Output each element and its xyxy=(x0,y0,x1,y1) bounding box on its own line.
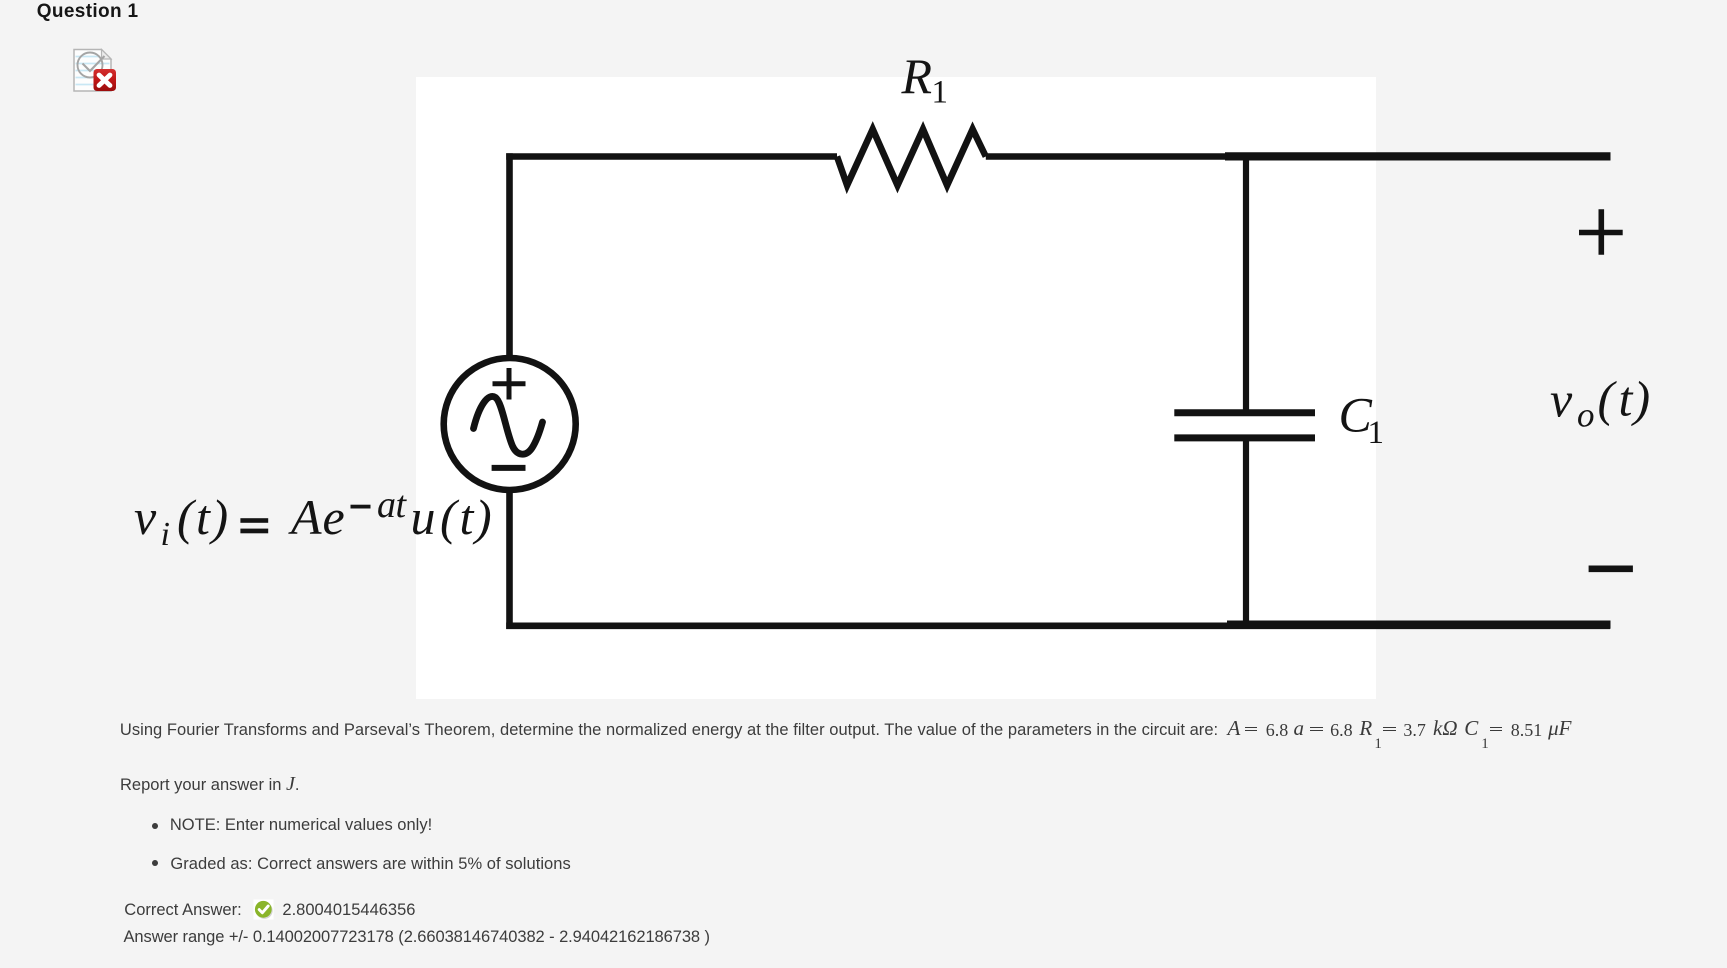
label vo(t) xyxy=(1550,371,1650,435)
capacitor C1 xyxy=(1174,413,1315,438)
wire: capacitor bottom to bottom rail xyxy=(1243,441,1249,629)
broken image placeholder icon xyxy=(71,46,119,94)
wire: top rail left segment to resistor xyxy=(506,153,837,160)
Question header xyxy=(37,1,139,24)
wire: bottom-left vertical from source to bottom rail xyxy=(506,490,513,629)
svg-text:1: 1 xyxy=(1368,415,1385,451)
svg-text:): ) xyxy=(209,489,229,545)
svg-text:t: t xyxy=(196,489,211,545)
svg-text:a: a xyxy=(377,484,396,526)
source + polarity mark xyxy=(493,368,526,400)
svg-text:t: t xyxy=(460,489,475,545)
label C1 xyxy=(1339,387,1385,451)
source - polarity mark xyxy=(492,465,526,471)
output - terminal xyxy=(1589,565,1633,572)
bullet 2 xyxy=(152,860,158,866)
svg-text:A: A xyxy=(288,489,322,545)
node: junction of top rail and capacitor branch xyxy=(1243,157,1249,410)
svg-text:(: ( xyxy=(1598,371,1618,427)
bullet 1 xyxy=(152,823,158,829)
svg-text:u: u xyxy=(411,489,436,545)
correct answer line xyxy=(124,902,241,919)
label vi(t) = Ae^-at u(t) xyxy=(134,484,492,553)
label R1 xyxy=(901,48,949,110)
question text math tokens xyxy=(1228,718,1241,739)
wire: top-left vertical from source to top rail xyxy=(506,153,513,358)
svg-text:v: v xyxy=(134,489,157,545)
svg-text:(: ( xyxy=(177,489,197,545)
svg-text:o: o xyxy=(1577,396,1595,435)
svg-text:t: t xyxy=(396,484,408,526)
voltage source vi xyxy=(444,358,576,490)
svg-text:1: 1 xyxy=(932,74,949,110)
svg-text:t: t xyxy=(1619,371,1634,427)
resistor R1 xyxy=(837,129,986,185)
green check icon xyxy=(253,899,274,920)
svg-text:(: ( xyxy=(440,489,460,545)
svg-text:e: e xyxy=(323,489,345,545)
svg-text:): ) xyxy=(472,489,492,545)
output + terminal xyxy=(1579,209,1623,255)
svg-text:v: v xyxy=(1550,371,1573,427)
wire: top rail from resistor to output terminal xyxy=(986,153,1611,160)
report line xyxy=(120,774,299,794)
svg-text:i: i xyxy=(161,516,170,553)
white image panel xyxy=(416,77,1376,699)
svg-text:): ) xyxy=(1631,371,1651,427)
source sine symbol xyxy=(474,396,543,454)
answer range line xyxy=(124,929,710,946)
svg-text:R: R xyxy=(901,48,933,104)
wire: bottom rail xyxy=(506,625,1610,626)
question text paragraph (sans part) xyxy=(120,722,1218,739)
